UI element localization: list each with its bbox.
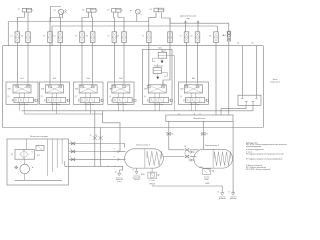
svg-text:В РКЦБ: В РКЦБ [149,183,155,185]
svg-text:У7: У7 [18,9,20,11]
svg-text:15: 15 [184,153,186,155]
svg-text:У2: У2 [86,35,88,37]
svg-text:Насосная станция: Насосная станция [30,136,48,138]
svg-text:2: 2 [70,140,71,142]
svg-text:У6: У6 [150,9,152,11]
svg-text:Бл4: Бл4 [119,78,122,80]
svg-text:У2: У2 [191,35,193,37]
svg-text:Слив без: Слив без [219,196,226,198]
svg-text:(всас): (всас) [117,181,122,183]
svg-text:13: 13 [95,135,97,137]
svg-text:У5: У5 [107,9,109,11]
svg-text:давления: давления [116,179,123,181]
svg-text:11: 11 [132,170,134,172]
svg-text:давления: давления [230,198,237,200]
svg-text:давлением: давлением [133,177,141,179]
svg-text:ЭМ1: ЭМ1 [8,88,12,90]
svg-text:У3: У3 [209,35,211,37]
svg-text:У2: У2 [117,35,119,37]
svg-text:9: 9 [114,157,115,159]
svg-text:ИТЛ: ИТЛ [200,167,203,169]
svg-text:клапанов 1: клапанов 1 [270,82,281,84]
svg-text:ЭМ1: ЭМ1 [109,88,113,90]
svg-text:06: 06 [237,43,239,45]
svg-text:РУ Гидрораспределитель програм: РУ Гидрораспределитель программируемый [246,158,282,161]
svg-text:Мерный бачок: Мерный бачок [193,117,205,120]
svg-text:из: из [130,10,132,12]
svg-text:У2: У2 [53,35,55,37]
svg-text:06: 06 [252,43,254,45]
svg-text:10: 10 [115,172,117,174]
svg-text:давления: давления [219,198,226,200]
svg-text:4: 4 [70,156,71,158]
svg-text:программируемый: программируемый [246,145,261,148]
svg-text:Слив под: Слив под [133,175,140,177]
svg-text:Блок: Блок [273,79,278,81]
svg-text:Бл6: Бл6 [192,78,195,80]
svg-text:18: 18 [171,134,173,136]
svg-text:Слив без: Слив без [230,196,237,198]
svg-text:ЭМ1: ЭМ1 [41,88,45,90]
svg-text:Бл2: Бл2 [53,78,56,80]
svg-text:(напор): (напор) [134,179,140,181]
svg-text:У1: У1 [10,35,12,37]
svg-text:ИПЖ: ИПЖ [141,174,145,176]
svg-text:ЭМ1: ЭМ1 [144,88,148,90]
svg-text:Компенсатор 2: Компенсатор 2 [205,145,220,147]
svg-text:У1: У1 [107,35,109,37]
svg-text:1,0 бар: 1,0 бар [150,180,155,182]
svg-text:ЭМ1: ЭМ1 [180,88,184,90]
svg-text:ЭМ1: ЭМ1 [75,88,79,90]
svg-text:У1: У1 [75,35,77,37]
svg-text:Бл5: Бл5 [158,47,161,49]
svg-text:Слив без: Слив без [116,177,123,179]
svg-text:Компенсатор 1: Компенсатор 1 [136,145,151,147]
svg-text:12: 12 [90,135,92,137]
svg-text:Бл1: Бл1 [20,78,23,80]
svg-text:3: 3 [70,148,71,150]
svg-text:4,0 бар: 4,0 бар [204,176,209,178]
svg-text:19: 19 [206,134,208,136]
svg-text:ИТЛ, ИПЖ - Клапан обратный: ИТЛ, ИПЖ - Клапан обратный [246,168,270,171]
svg-text:В ВМУ: В ВМУ [204,179,209,181]
svg-text:У9: У9 [54,10,56,12]
svg-text:16: 16 [217,191,219,193]
svg-text:У1: У1 [43,35,45,37]
svg-text:Дополнительный: Дополнительный [180,14,196,17]
svg-text:14: 14 [184,146,186,148]
svg-text:У1: У1 [142,35,144,37]
svg-text:Р1 Гидрораспределитель предохр: Р1 Гидрораспределитель предохранительный [246,152,284,155]
svg-text:17: 17 [228,191,230,193]
svg-text:У2: У2 [21,35,23,37]
svg-text:У1: У1 [180,35,182,37]
svg-text:8: 8 [114,149,115,151]
svg-text:Бл3: Бл3 [87,78,90,80]
svg-text:У4: У4 [82,9,84,11]
